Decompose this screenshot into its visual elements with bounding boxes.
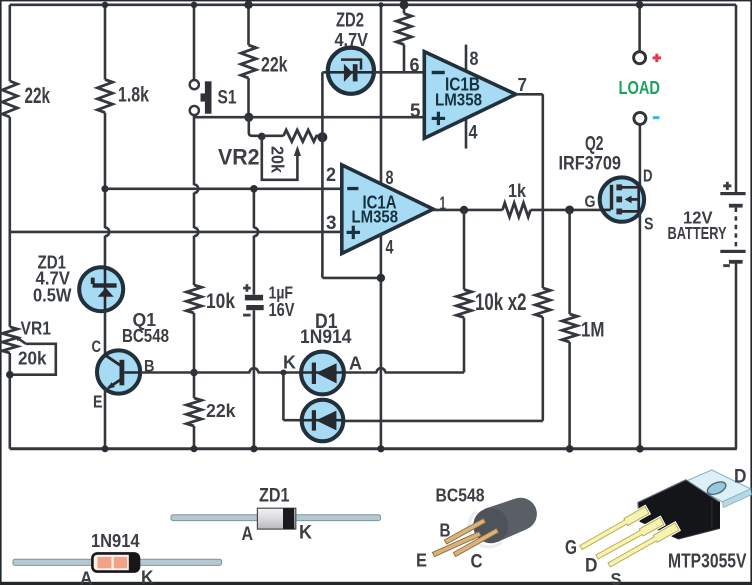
resistor VR1 element 20k <box>2 327 17 353</box>
resistor R2 1.8k <box>97 80 112 113</box>
zener diode ZD1 <box>79 267 123 311</box>
wire ZD2 anode stub <box>322 71 328 74</box>
wire VR2 wiper return loop <box>262 136 298 179</box>
battery B1 cell dashes <box>735 208 738 250</box>
junction dot pin2 node <box>101 185 108 192</box>
photo ZD1 lead <box>171 515 381 521</box>
label cap minus <box>243 314 251 317</box>
wire 1M to ground rail <box>568 342 571 449</box>
wire pin3 input <box>10 231 342 234</box>
photo MTP3055V lead D <box>596 518 664 560</box>
wire x404 from V+ rail <box>403 5 406 14</box>
svg-text:A: A <box>349 354 362 375</box>
label plus (LOAD) <box>653 56 661 59</box>
svg-text:IRF3709: IRF3709 <box>559 153 622 175</box>
svg-text:ZD2: ZD2 <box>336 10 364 32</box>
junction dot bottom rail x381 <box>377 445 384 452</box>
wire VR2 element leads <box>262 135 323 138</box>
wire left frame middle segment <box>9 117 12 327</box>
switch S1 top contact <box>190 80 199 89</box>
svg-text:BC548: BC548 <box>122 326 169 347</box>
arrow VR2 wiper <box>294 146 301 157</box>
svg-text:K: K <box>141 568 154 585</box>
capacitor C1 plus plate <box>245 295 263 301</box>
wire 10k1 top lead <box>463 210 466 290</box>
junction dot ground branch <box>377 274 385 282</box>
wire x194 10k to base node <box>193 313 196 398</box>
photo BC548 face rim <box>469 512 502 547</box>
capacitor C1 minus plate <box>246 305 264 310</box>
svg-text:3: 3 <box>326 212 337 234</box>
wire x248 22k to junction <box>247 78 250 117</box>
wire VR1 wiper return loop <box>10 344 56 375</box>
svg-text:1k: 1k <box>508 181 527 201</box>
svg-text:4.7V: 4.7V <box>335 30 369 50</box>
wire 10k2 down to D2 <box>343 317 542 421</box>
wire left frame upper segment <box>9 5 12 81</box>
transistor Q1 BC548 <box>97 350 140 393</box>
wire pin2 input <box>105 188 342 191</box>
svg-text:K: K <box>283 353 296 374</box>
svg-text:BATTERY: BATTERY <box>668 223 727 243</box>
resistor R5 22k lower <box>186 398 201 426</box>
wire Q1 emitter to ground rail <box>104 389 107 449</box>
svg-text:4: 4 <box>386 237 394 259</box>
photo 1N914 body <box>92 553 139 571</box>
svg-text:C: C <box>92 337 102 356</box>
svg-text:22k: 22k <box>261 52 288 77</box>
svg-text:D: D <box>643 166 653 186</box>
photo BC548 lead E <box>432 532 481 557</box>
svg-text:22k: 22k <box>25 83 51 108</box>
wire V+ top rail <box>10 4 736 7</box>
svg-text:ZD1: ZD1 <box>259 485 290 507</box>
svg-text:1: 1 <box>440 194 447 215</box>
junction dot cap node <box>250 185 258 193</box>
resistor R10 1M <box>562 314 577 342</box>
junction dot D2 branch <box>280 370 286 376</box>
svg-text:20k: 20k <box>18 349 47 370</box>
photo 1N914 lead <box>13 559 222 565</box>
svg-text:10k x2: 10k x2 <box>475 289 527 316</box>
svg-text:1M: 1M <box>581 317 605 342</box>
wire x194 22k to ground rail <box>193 426 196 449</box>
wire 1M top lead <box>568 210 571 314</box>
wire node x105 from V+ rail <box>104 5 107 80</box>
svg-text:LM358: LM358 <box>435 90 482 110</box>
op-amp IC1B pin8 stub <box>465 45 468 74</box>
svg-text:LM358: LM358 <box>352 207 399 227</box>
svg-text:1N914: 1N914 <box>300 326 352 348</box>
wire pin7 output <box>516 94 543 288</box>
wire Q1 base to diodes <box>140 368 301 372</box>
svg-text:8: 8 <box>470 48 479 70</box>
svg-text:S: S <box>644 214 654 234</box>
resistor R6 above pin6 <box>396 14 411 45</box>
photo MTP3055V lead S <box>608 523 679 567</box>
svg-text:10k: 10k <box>206 288 236 313</box>
junction dot S1/22k/VR2 node <box>244 113 253 122</box>
svg-text:20k: 20k <box>268 146 288 173</box>
svg-text:K: K <box>299 522 312 544</box>
wire left frame lower segment <box>9 353 12 449</box>
wire right frame upper segment <box>735 5 738 192</box>
wire x381 V+ to IC1A pin8 <box>380 5 383 185</box>
wire feed to VR2 left <box>249 117 262 136</box>
svg-text:8: 8 <box>386 167 394 189</box>
svg-text:E: E <box>416 551 427 572</box>
diode D1 1N914 <box>301 352 344 395</box>
svg-text:C: C <box>471 551 483 573</box>
svg-text:VR1: VR1 <box>21 319 52 340</box>
wire pin5/S1 node <box>194 116 424 119</box>
wire Q2 source to ground rail <box>639 211 642 448</box>
label battery minus <box>723 264 730 267</box>
junction dot bottom rail x105 <box>102 445 109 452</box>
terminal LOAD plus <box>634 52 646 64</box>
transistor Q2 IRF3709 <box>600 177 644 221</box>
junction dot VR2 left terminal <box>258 133 266 141</box>
junction dot bottom rail x640 <box>636 445 644 453</box>
resistor R4 10k <box>186 285 201 313</box>
label minus (LOAD) <box>653 116 660 119</box>
svg-text:7: 7 <box>518 75 528 96</box>
battery B1 short plate upper <box>729 204 743 208</box>
wire ZD1 to Q1 collector <box>104 310 107 355</box>
wire right frame lower segment <box>735 263 738 449</box>
svg-text:S1: S1 <box>218 87 237 109</box>
battery B1 lower long plate <box>720 250 745 253</box>
junction dot bottom rail x569 <box>566 445 574 453</box>
resistor R9 10k (first) <box>456 290 471 318</box>
svg-text:0.5W: 0.5W <box>33 286 72 307</box>
svg-text:BC548: BC548 <box>436 486 485 507</box>
wire R6 to pin6 <box>403 45 406 73</box>
label battery plus <box>723 184 731 187</box>
svg-text:1.8k: 1.8k <box>118 82 150 107</box>
resistor R7 1k <box>503 203 531 217</box>
wire cap to ground rail <box>253 310 256 449</box>
photo MTP3055V tab <box>684 470 751 502</box>
svg-text:MTP3055V: MTP3055V <box>668 551 747 573</box>
junction dot bottom rail x254 <box>250 445 257 452</box>
junction dot top rail x248 <box>244 1 252 9</box>
junction dot top rail x404 <box>400 0 409 9</box>
photo MTP3055V lead G <box>580 507 649 550</box>
photo ZD1 body <box>257 508 295 529</box>
wire x105 down to pin2 node <box>105 113 109 268</box>
svg-text:A: A <box>80 569 93 585</box>
svg-text:5: 5 <box>410 100 421 122</box>
battery B1 negative plate <box>729 260 743 264</box>
wire D2 branch <box>283 373 302 421</box>
junction dot top rail x639 <box>636 1 644 9</box>
svg-text:1N914: 1N914 <box>91 531 140 552</box>
resistor R8 10k (second) <box>535 288 550 317</box>
photo BC548 lead B <box>444 519 485 545</box>
junction dot top rail x381 <box>378 2 383 7</box>
op-amp IC1A body <box>342 165 433 254</box>
terminal LOAD minus <box>634 112 646 124</box>
svg-text:E: E <box>93 392 103 412</box>
wire x248 from V+ rail <box>247 5 250 45</box>
junction dot gate/1M <box>565 206 574 215</box>
photo MTP3055V body <box>638 480 720 539</box>
wire V+ rail to LOAD+ <box>638 5 641 52</box>
wire LOAD- to Q2 drain <box>639 125 642 189</box>
svg-text:G: G <box>585 192 596 211</box>
svg-text:2: 2 <box>326 164 336 186</box>
diode D2 1N914 <box>302 400 344 442</box>
photo BC548 lead C <box>453 528 498 556</box>
svg-text:22k: 22k <box>206 401 236 422</box>
junction dot bottom rail x194 <box>191 445 198 452</box>
svg-text:G: G <box>565 537 577 559</box>
junction dot top rail x194 <box>191 2 197 8</box>
junction dot VR2 right terminal <box>317 132 327 142</box>
junction dot VR1 return on frame <box>6 371 14 379</box>
wire pin1 output <box>433 209 503 212</box>
wire x194 from V+ rail to S1 <box>193 5 196 80</box>
wire 1k to gate <box>531 209 601 212</box>
svg-text:4: 4 <box>469 122 478 144</box>
wire ground bottom rail <box>10 447 737 450</box>
zener diode ZD2 <box>328 48 374 94</box>
switch S1 actuator <box>205 81 212 113</box>
svg-text:A: A <box>242 523 254 545</box>
wire 10k1 to D1 anode <box>463 318 466 373</box>
wire VR1 wiper line <box>17 338 26 344</box>
label cap plus <box>243 287 251 290</box>
wire IC1A pin4 to ground rail <box>380 234 383 448</box>
wire pin6 input <box>374 71 425 74</box>
wire cap line from pin2 node <box>254 189 258 295</box>
wire x194 S1 to divider chain <box>194 115 198 285</box>
switch S1 bottom contact <box>190 106 199 115</box>
svg-text:D: D <box>585 555 598 577</box>
svg-text:B: B <box>440 521 451 542</box>
op-amp IC1B pin4 stub <box>465 114 468 149</box>
svg-text:VR2: VR2 <box>218 145 260 170</box>
junction dot base node x194 <box>190 369 198 377</box>
op-amp IC1B body <box>424 52 516 139</box>
arrow VR1 wiper <box>14 335 21 341</box>
resistor R3 22k top <box>241 45 256 78</box>
svg-text:S: S <box>611 569 622 585</box>
wire diode anode to 10k1 <box>344 368 464 372</box>
battery B1 positive plate <box>720 192 745 195</box>
photo BC548 body <box>484 499 526 542</box>
svg-text:6: 6 <box>410 55 420 77</box>
svg-text:D: D <box>734 466 747 488</box>
potentiometer VR2 element 20k <box>284 130 317 142</box>
svg-text:LOAD: LOAD <box>619 78 661 98</box>
svg-text:16V: 16V <box>269 300 295 320</box>
junction dot top rail x105 <box>102 2 108 8</box>
junction dot pin1/10k <box>460 206 468 214</box>
resistor R1 22k (left frame) <box>2 81 17 117</box>
wire ground branch x322 <box>322 72 381 278</box>
